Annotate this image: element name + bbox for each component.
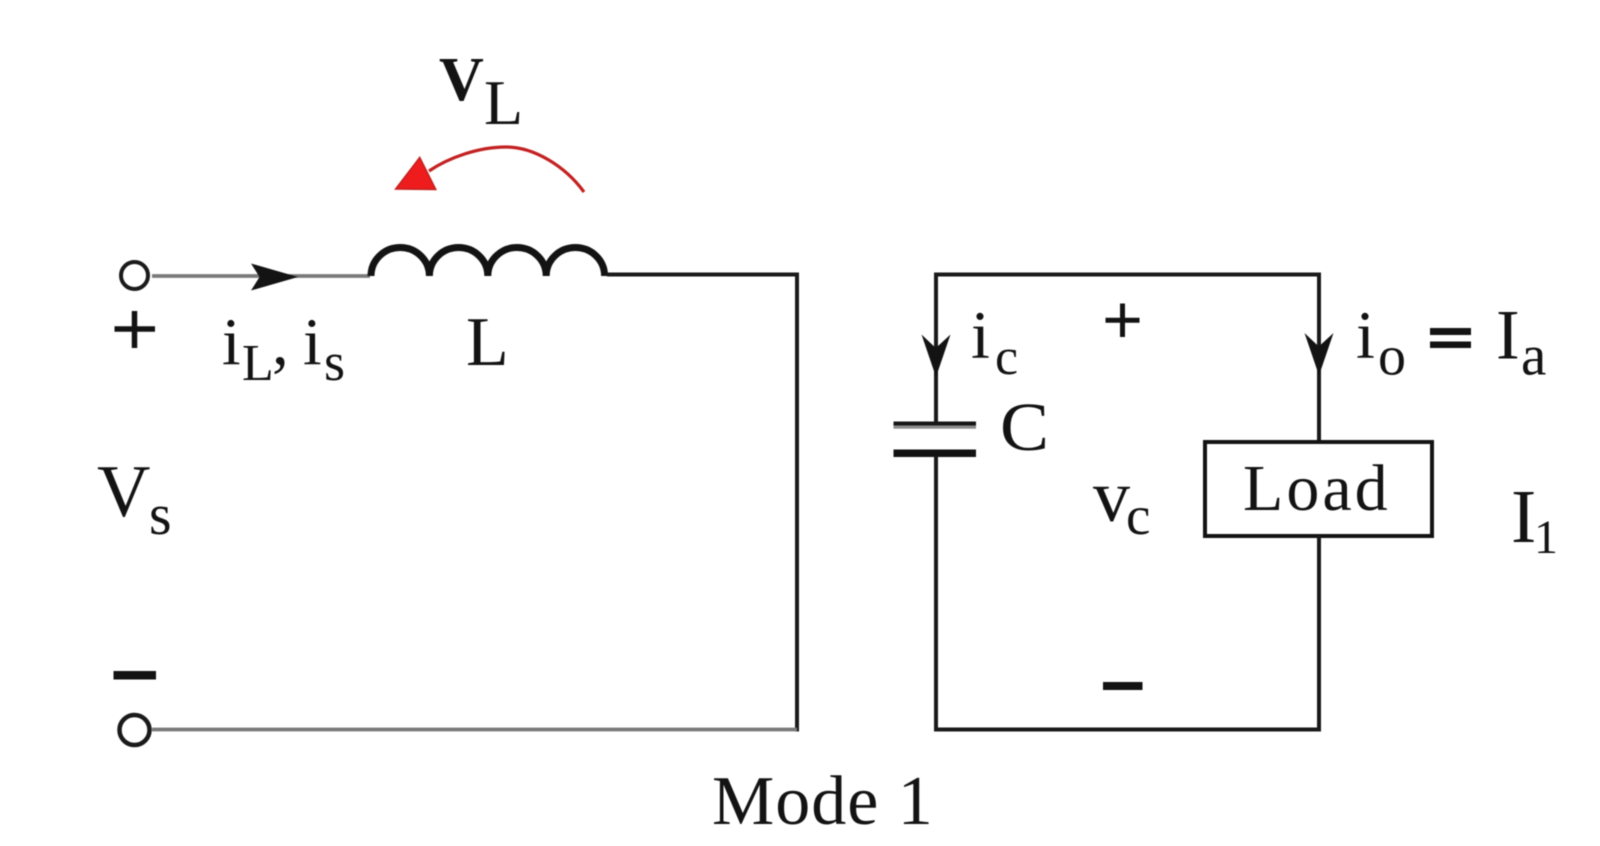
svg-text:I: I bbox=[1511, 475, 1536, 559]
svg-text:c: c bbox=[1126, 485, 1150, 546]
voltage arrowhead VL red bbox=[396, 157, 436, 189]
current arrow iL bbox=[251, 264, 298, 291]
svg-text:L: L bbox=[466, 304, 509, 381]
svg-text:V: V bbox=[97, 451, 150, 533]
load box bbox=[1205, 442, 1432, 536]
wire: capacitor branch upper bbox=[934, 273, 938, 425]
svg-text:Mode 1: Mode 1 bbox=[712, 763, 934, 840]
svg-text:L: L bbox=[484, 67, 523, 138]
wire: capacitor branch lower bbox=[934, 457, 938, 732]
current arrow io bbox=[1305, 333, 1334, 376]
voltage source Vs positive terminal bbox=[121, 262, 148, 289]
node: right circuit top wire bbox=[934, 273, 1321, 277]
svg-text:L: L bbox=[242, 335, 274, 392]
voltage source Vs negative terminal bbox=[120, 715, 150, 745]
svg-text:i: i bbox=[303, 305, 322, 379]
wire bbox=[152, 274, 370, 278]
minus sign Vs bbox=[114, 671, 157, 680]
wire bbox=[607, 273, 799, 277]
svg-text:,: , bbox=[272, 305, 289, 379]
capacitor C top plate bbox=[894, 422, 977, 426]
plus sign vc bbox=[1106, 304, 1140, 338]
svg-text:s: s bbox=[324, 332, 345, 392]
svg-text:I: I bbox=[1496, 297, 1520, 375]
svg-text:Load: Load bbox=[1243, 452, 1391, 525]
svg-text:s: s bbox=[149, 482, 172, 547]
wire: right circuit bottom bbox=[934, 728, 1321, 732]
wire: load branch lower bbox=[1317, 536, 1321, 732]
current arrow ic bbox=[922, 335, 951, 378]
svg-text:a: a bbox=[1521, 325, 1546, 388]
svg-text:1: 1 bbox=[1534, 511, 1558, 564]
capacitor C bottom plate bbox=[894, 450, 977, 458]
minus sign vc bbox=[1103, 682, 1143, 690]
svg-text:i: i bbox=[222, 305, 241, 379]
svg-text:c: c bbox=[995, 329, 1018, 386]
svg-text:C: C bbox=[1000, 389, 1049, 465]
svg-text:v: v bbox=[1093, 456, 1130, 538]
wire bbox=[152, 728, 797, 732]
svg-text:V: V bbox=[439, 46, 484, 114]
voltage arc VL red bbox=[429, 147, 584, 192]
inductor L bbox=[371, 248, 605, 277]
svg-text:i: i bbox=[1356, 297, 1375, 373]
plus sign Vs bbox=[115, 311, 156, 348]
svg-text:i: i bbox=[971, 297, 990, 373]
wire bbox=[795, 273, 799, 732]
equals sign bbox=[1430, 328, 1471, 335]
wire: load branch upper bbox=[1317, 273, 1321, 443]
svg-text:o: o bbox=[1378, 326, 1406, 388]
